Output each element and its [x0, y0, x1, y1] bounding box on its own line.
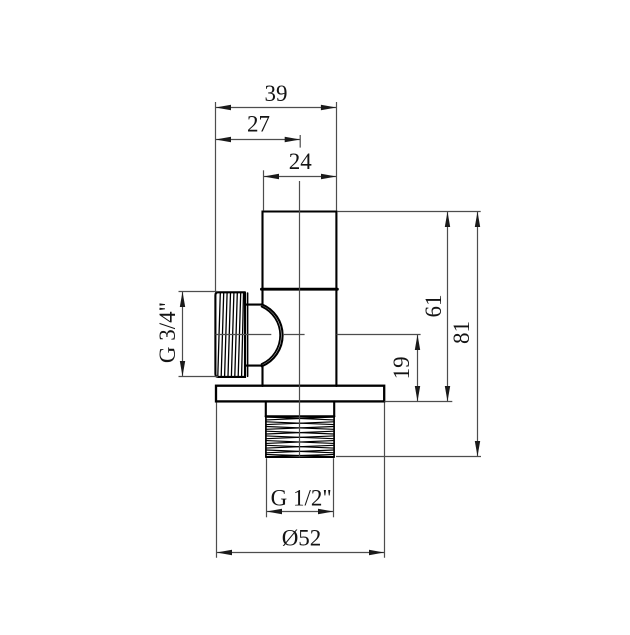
extension line right of 39 dim: [336, 102, 338, 210]
body joint line: [261, 288, 337, 291]
horizontal port center line extension: [337, 334, 421, 336]
valve upper body outline: [263, 212, 337, 387]
side port dome inner arc: [262, 307, 281, 365]
bottom neck left edge: [265, 401, 267, 416]
side port neck top line: [245, 304, 262, 306]
arrow diameter52 left: [217, 550, 233, 555]
G3/4 thread hatch lines: [218, 293, 244, 376]
arrow 24 right: [321, 174, 337, 179]
arrow 27 right: [285, 137, 301, 142]
valve lower body left edge: [261, 366, 263, 386]
arrow G3/4 bottom: [180, 361, 185, 377]
svg-text:Ø52: Ø52: [282, 525, 322, 550]
bottom neck right edge: [333, 401, 335, 416]
arrow 39 right: [321, 105, 337, 110]
extension line left of 39/27 dims: [215, 102, 217, 292]
arrow 61 top: [445, 212, 450, 228]
arrow 81 bottom: [475, 441, 480, 457]
arrow 39 left: [216, 105, 232, 110]
svg-text:G 3/4": G 3/4": [155, 302, 180, 363]
arrow G1/2 right: [318, 509, 334, 514]
arrow 27 left: [216, 137, 232, 142]
G1/2 right extension line: [333, 458, 335, 517]
svg-text:39: 39: [265, 81, 288, 106]
flange bottom right extension line: [385, 401, 453, 403]
side port dome outer arc: [262, 304, 283, 366]
svg-text:27: 27: [247, 112, 270, 137]
arrow G1/2 left: [267, 509, 283, 514]
horizontal port center line segment 1: [216, 334, 272, 336]
G1/2 thread hatch lines: [266, 417, 334, 457]
svg-text:19: 19: [389, 356, 414, 379]
G1/2 left extension line: [266, 458, 268, 517]
svg-text:81: 81: [449, 321, 474, 344]
svg-text:G 1/2": G 1/2": [271, 486, 332, 511]
G3/4 top extension line: [179, 291, 218, 293]
dimension line 27: [216, 139, 301, 141]
svg-text:61: 61: [421, 295, 446, 318]
horizontal port center line segment 2: [284, 334, 305, 336]
dimension line 61: [447, 212, 449, 402]
flange left extension line: [216, 403, 218, 558]
arrow 24 left: [264, 174, 280, 179]
G1/2 thread bottom edge: [267, 456, 334, 458]
arrow 19 bottom: [415, 386, 420, 402]
center tick for 27 dim: [299, 135, 301, 148]
side port neck bottom line: [245, 365, 262, 367]
dimension line 24: [264, 176, 337, 178]
mounting flange: [216, 386, 384, 402]
G1/2 thread left edge: [265, 416, 267, 457]
body top right extension line: [338, 211, 481, 213]
G3/4 dimension line: [182, 292, 184, 377]
dimension line 39: [216, 107, 337, 109]
arrow 81 top: [475, 212, 480, 228]
arrow diameter52 right: [369, 550, 385, 555]
arrow 19 top: [415, 335, 420, 351]
G3/4 thread outline: [215, 292, 245, 377]
G1/2 dimension line: [267, 511, 334, 513]
arrow 61 bottom: [445, 386, 450, 402]
extension line left of 24 dim: [263, 170, 265, 210]
G3/4 bottom extension line: [179, 376, 219, 378]
side port collar line: [247, 293, 249, 376]
flange right extension line: [384, 403, 386, 558]
svg-text:24: 24: [289, 149, 313, 174]
dimension line diameter 52: [217, 552, 385, 554]
G1/2 thread top edge: [266, 415, 334, 417]
dimension line 81: [477, 212, 479, 457]
thread bottom right extension line: [336, 456, 481, 458]
arrow G3/4 top: [180, 292, 185, 308]
G1/2 thread right edge: [333, 416, 335, 457]
dimension line 19: [417, 335, 419, 402]
vertical center line: [299, 181, 301, 457]
